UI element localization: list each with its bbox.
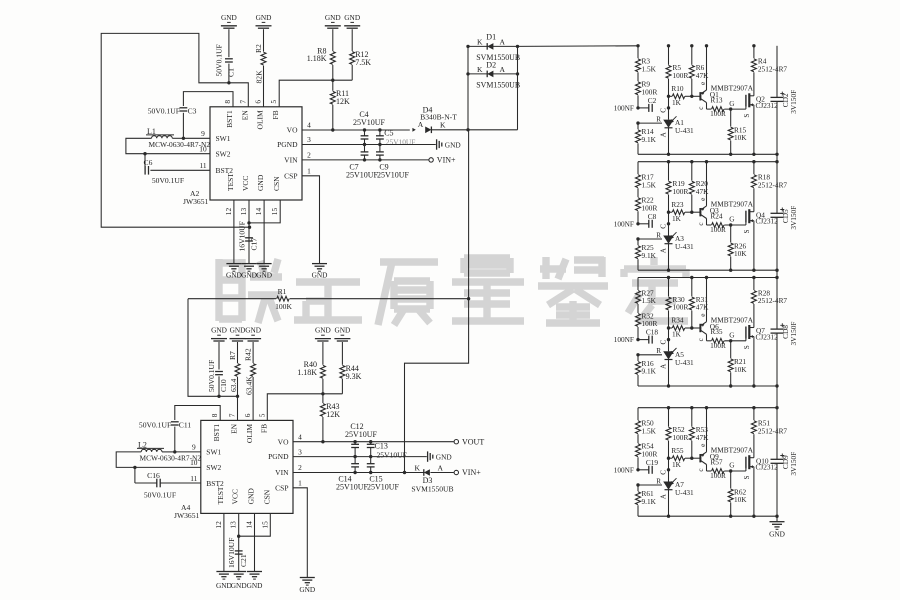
svg-text:c: c (697, 338, 705, 341)
svg-text:K: K (477, 65, 483, 74)
svg-text:1.5K: 1.5K (642, 426, 657, 435)
svg-text:G: G (729, 462, 734, 470)
svg-text:C1: C1 (227, 68, 236, 77)
svg-text:100NF: 100NF (614, 219, 634, 228)
svg-text:25V10UF: 25V10UF (336, 482, 369, 491)
ground PGND A2 (436, 139, 438, 149)
capacitor C19 (636, 468, 639, 471)
resistor R52 (668, 408, 670, 427)
resistor R25 (637, 239, 639, 245)
junction C11-SW1 (173, 450, 176, 453)
svg-text:e: e (699, 444, 707, 447)
wire PGND A4 (293, 456, 427, 458)
junction CSN-VCC A4 (237, 535, 240, 538)
svg-text:25V10UF: 25V10UF (346, 170, 379, 179)
svg-text:R13: R13 (710, 95, 723, 104)
wire top rail cell3 (638, 277, 777, 279)
terminal VIN+ A2 (429, 158, 433, 162)
svg-text:R24: R24 (710, 211, 723, 220)
terminal VOUT (454, 440, 458, 444)
resistor R30 (668, 278, 670, 297)
wire D2 branch (468, 73, 518, 75)
svg-text:GND: GND (221, 13, 237, 22)
capacitor C13 (369, 440, 372, 443)
resistor R21 (729, 339, 732, 342)
svg-text:11: 11 (190, 474, 197, 483)
wire FB A2 (279, 80, 352, 107)
wire TEST A4 (223, 513, 225, 571)
resistor R4 (753, 46, 755, 59)
svg-text:D2: D2 (486, 60, 496, 69)
resistor R24 (707, 224, 712, 226)
wire top feed (468, 45, 638, 48)
svg-text:1K: 1K (672, 330, 682, 339)
watermark (219, 257, 688, 325)
capacitor C3 (183, 92, 233, 107)
svg-text:C18: C18 (646, 328, 659, 337)
ground GND pin A2 (257, 263, 272, 265)
resistor R23 (667, 211, 670, 214)
svg-text:CJ2312: CJ2312 (756, 101, 779, 110)
svg-text:GND: GND (247, 581, 263, 590)
svg-text:e: e (699, 82, 707, 85)
svg-text:c: c (697, 106, 705, 109)
wire VO A2 (302, 129, 410, 131)
junction FB-R11 (331, 79, 334, 82)
svg-text:SW1: SW1 (216, 134, 231, 143)
svg-text:50V0.1UF: 50V0.1UF (215, 44, 224, 76)
shunt regulator A1 U-431 (668, 96, 670, 119)
svg-text:R10: R10 (671, 84, 684, 93)
svg-text:R42: R42 (243, 348, 252, 361)
svg-text:2512-4R7: 2512-4R7 (758, 426, 788, 435)
capacitor C12 (353, 440, 356, 443)
wire cathode rail D1-D2 (467, 46, 469, 129)
svg-text:9: 9 (192, 443, 196, 452)
resistor R51 (753, 408, 755, 421)
wire cell link 1-2 (776, 154, 778, 161)
wire source cell4 (753, 467, 755, 517)
svg-text:100R: 100R (710, 471, 726, 480)
svg-text:VCC: VCC (241, 176, 250, 191)
svg-text:50V0.1UF: 50V0.1UF (152, 176, 184, 185)
svg-text:JW3651: JW3651 (183, 197, 209, 206)
svg-text:TEST: TEST (216, 486, 225, 504)
svg-text:1.5K: 1.5K (642, 65, 657, 74)
wire top rail cell1 (667, 44, 670, 47)
svg-text:A: A (659, 493, 667, 499)
svg-text:S: S (743, 345, 751, 349)
svg-text:R55: R55 (671, 446, 684, 455)
svg-text:VIN+: VIN+ (437, 156, 456, 165)
resistor R22 (636, 198, 641, 211)
svg-text:15: 15 (270, 208, 279, 216)
svg-text:SVM1550UB: SVM1550UB (476, 81, 520, 90)
resistor R32 (636, 314, 641, 327)
capacitor CD2 (776, 46, 778, 98)
svg-text:7: 7 (238, 100, 247, 104)
svg-text:9: 9 (201, 129, 205, 138)
wire EN loop A2 (101, 33, 249, 227)
wire FB A4 (267, 394, 342, 421)
svg-text:R23: R23 (671, 200, 684, 209)
resistor R1 (188, 298, 276, 300)
resistor R15 (729, 107, 732, 110)
svg-text:S: S (743, 230, 751, 234)
transistor Q6 MMBT2907A (699, 324, 701, 332)
wire TEST A2 (233, 200, 235, 263)
wire source cell2 (753, 221, 755, 271)
wire source cell1 (753, 105, 755, 155)
svg-text:C: C (659, 339, 667, 344)
wire D4 output (432, 129, 518, 131)
junction R43-VO (321, 440, 324, 443)
svg-text:50V0.1UF: 50V0.1UF (144, 490, 176, 499)
resistor R53 (691, 408, 693, 427)
svg-text:GND: GND (216, 581, 232, 590)
resistor R31 (691, 278, 693, 297)
shunt regulator A3 U-431 (668, 212, 670, 235)
svg-text:G: G (729, 216, 734, 224)
resistor R26 (729, 223, 732, 226)
resistor R16 (637, 355, 639, 361)
svg-text:2512-4R7: 2512-4R7 (758, 65, 788, 74)
svg-text:1K: 1K (672, 460, 682, 469)
svg-text:GND: GND (245, 326, 261, 335)
svg-text:1.18K: 1.18K (307, 54, 327, 63)
resistor R11 (332, 80, 334, 91)
svg-text:100R: 100R (673, 187, 689, 196)
svg-text:12K: 12K (326, 410, 340, 419)
junction CSN-VCC (247, 221, 250, 224)
svg-text:9.1K: 9.1K (642, 251, 657, 260)
svg-text:9.1K: 9.1K (642, 497, 657, 506)
svg-text:PGND: PGND (268, 452, 289, 461)
wire VO A4 (293, 441, 454, 443)
resistor R27 (637, 278, 639, 291)
svg-text:G: G (729, 332, 734, 340)
wire ref A3 (636, 237, 639, 240)
capacitor C10 (218, 342, 220, 370)
wire top rail cell2 (638, 161, 777, 163)
svg-text:4: 4 (298, 432, 302, 441)
svg-text:D1: D1 (486, 33, 496, 42)
svg-text:CJ2312: CJ2312 (756, 217, 779, 226)
capacitor C9 (379, 145, 381, 152)
svg-text:SW2: SW2 (206, 463, 221, 472)
svg-text:S: S (743, 114, 751, 118)
svg-text:CSP: CSP (275, 483, 288, 492)
wire CSN A4 (239, 513, 271, 536)
svg-text:SW1: SW1 (206, 448, 221, 457)
resistor R3 (637, 46, 639, 59)
junction R11-VO (331, 128, 334, 131)
svg-text:50V0.1UF: 50V0.1UF (139, 420, 171, 429)
wire CSP A2 (302, 176, 320, 264)
svg-text:A: A (418, 120, 424, 129)
svg-text:e: e (699, 198, 707, 201)
svg-text:7: 7 (228, 413, 237, 417)
svg-text:12: 12 (224, 208, 233, 216)
svg-text:VO: VO (278, 437, 289, 446)
svg-text:100R: 100R (710, 109, 726, 118)
svg-text:FB: FB (259, 424, 268, 433)
svg-text:K: K (415, 464, 421, 473)
junction loop-VCC (248, 226, 251, 229)
capacitor C14 (354, 457, 356, 464)
svg-text:VO: VO (287, 126, 298, 135)
svg-text:C21: C21 (239, 554, 248, 567)
svg-text:JW3651: JW3651 (174, 511, 200, 520)
ground VCC A4 (231, 571, 246, 573)
resistor R14 (637, 123, 639, 129)
svg-text:C10: C10 (219, 379, 228, 392)
resistor R34 (667, 326, 670, 329)
svg-text:C: C (659, 470, 667, 475)
wire cell link 3-4 (776, 386, 778, 408)
wire GND pin A4 (254, 513, 256, 571)
svg-text:10K: 10K (734, 495, 747, 504)
svg-text:9.1K: 9.1K (642, 367, 657, 376)
svg-text:15: 15 (260, 521, 269, 529)
svg-text:1K: 1K (672, 98, 682, 107)
resistor R44 (341, 342, 343, 365)
resistor R9 (636, 82, 641, 95)
svg-text:GND: GND (344, 13, 360, 22)
svg-text:12: 12 (214, 521, 223, 529)
svg-text:OLIM: OLIM (256, 110, 265, 129)
svg-text:9.1K: 9.1K (642, 135, 657, 144)
svg-text:K: K (477, 38, 483, 47)
svg-text:VCC: VCC (231, 489, 240, 504)
svg-text:R: R (656, 231, 661, 239)
svg-text:PGND: PGND (277, 140, 298, 149)
svg-text:1: 1 (298, 479, 302, 488)
ground GND pin A4 (247, 571, 262, 573)
capacitor C6 (144, 154, 146, 171)
svg-text:A: A (659, 363, 667, 369)
svg-text:100R: 100R (673, 433, 689, 442)
svg-text:TEST: TEST (226, 173, 235, 191)
ground TEST A4 (216, 571, 231, 573)
svg-text:G: G (729, 100, 734, 108)
svg-text:FB: FB (271, 110, 280, 119)
svg-text:c: c (697, 222, 705, 225)
capacitor C11 (175, 406, 220, 421)
resistor R7 (237, 342, 239, 363)
svg-text:100R: 100R (710, 225, 726, 234)
svg-text:U-431: U-431 (675, 488, 694, 497)
svg-text:50V0.1UF: 50V0.1UF (207, 360, 216, 392)
svg-text:9.3K: 9.3K (346, 372, 362, 381)
wire VIN A2 (302, 159, 429, 161)
wire ref A1 (636, 121, 639, 124)
svg-text:3: 3 (307, 135, 311, 144)
svg-text:C: C (659, 108, 667, 113)
svg-text:MCW-0630-4R7-N2: MCW-0630-4R7-N2 (140, 453, 202, 462)
svg-text:16V10UF: 16V10UF (227, 538, 236, 568)
junction C1-EN (227, 81, 230, 84)
svg-text:12K: 12K (336, 97, 350, 106)
resistor R8 (332, 29, 334, 51)
svg-text:R: R (656, 115, 661, 123)
svg-text:B340B-N-T: B340B-N-T (420, 113, 457, 122)
svg-text:GND: GND (325, 13, 341, 22)
junction SW2-C6 (143, 152, 146, 155)
svg-text:VIN: VIN (275, 468, 289, 477)
svg-text:R2: R2 (254, 44, 263, 53)
svg-text:A: A (500, 65, 506, 74)
wire top rail cell4 (638, 407, 777, 409)
svg-text:3V150F: 3V150F (789, 90, 798, 114)
svg-text:R57: R57 (710, 457, 723, 466)
svg-text:C16: C16 (147, 471, 160, 480)
svg-text:47K: 47K (696, 433, 709, 442)
wire VCC A2 (248, 200, 250, 263)
svg-text:U-431: U-431 (675, 126, 694, 135)
capacitor C8 (636, 222, 639, 225)
resistor R13 (707, 108, 712, 110)
terminal VIN+ A4 (454, 470, 458, 474)
svg-text:3V150F: 3V150F (789, 322, 798, 346)
svg-text:C6: C6 (144, 158, 153, 167)
svg-text:25V10UF: 25V10UF (386, 138, 416, 147)
svg-text:5: 5 (257, 413, 266, 417)
svg-text:47K: 47K (696, 71, 709, 80)
svg-text:GND: GND (231, 581, 247, 590)
junction SW2-C16 (133, 466, 136, 469)
capacitor CD8 (776, 278, 778, 330)
svg-text:2: 2 (298, 463, 302, 472)
resistor R42 (252, 342, 254, 363)
svg-text:GND: GND (241, 271, 257, 280)
wire CSN A2 (249, 200, 280, 223)
svg-text:100K: 100K (275, 302, 292, 311)
ground CSP A2 (312, 263, 327, 265)
capacitor C4 (363, 128, 366, 131)
resistor R20 (691, 162, 693, 181)
transistor Q3 MMBT2907A (699, 208, 701, 216)
svg-text:25V10UF: 25V10UF (353, 118, 386, 127)
svg-text:GND: GND (769, 529, 785, 538)
svg-text:13: 13 (239, 208, 248, 216)
svg-text:4: 4 (307, 121, 311, 130)
ground VCC A2 (242, 263, 257, 265)
svg-text:100R: 100R (673, 303, 689, 312)
svg-text:82K: 82K (255, 70, 264, 84)
svg-text:C: C (659, 224, 667, 229)
svg-text:1: 1 (307, 167, 311, 176)
capacitor C2 (636, 106, 639, 109)
svg-text:6: 6 (254, 100, 263, 104)
shunt regulator A7 U-431 (668, 458, 670, 481)
svg-text:VOUT: VOUT (462, 437, 484, 446)
svg-text:GND: GND (256, 174, 265, 191)
svg-text:10K: 10K (734, 365, 747, 374)
svg-text:47K: 47K (696, 303, 709, 312)
svg-text:GND: GND (445, 140, 461, 149)
svg-text:A: A (438, 464, 444, 473)
svg-text:R34: R34 (671, 316, 684, 325)
svg-text:VIN+: VIN+ (462, 468, 481, 477)
resistor R50 (637, 408, 639, 421)
resistor R6 (691, 46, 693, 65)
transistor Q2 CJ2312 (745, 95, 747, 107)
ground PGND A4 (427, 451, 429, 461)
svg-text:100NF: 100NF (614, 335, 634, 344)
svg-text:BST1: BST1 (212, 424, 221, 442)
wire bottom rail cell1 (638, 153, 777, 155)
svg-text:CSP: CSP (284, 171, 297, 180)
resistor R40 (322, 342, 324, 365)
wire GND pin A2 (263, 200, 265, 263)
junction C10-EN (217, 395, 220, 398)
svg-text:C19: C19 (646, 458, 659, 467)
svg-text:7.5K: 7.5K (355, 58, 371, 67)
capacitor C16 (134, 467, 136, 483)
svg-text:U-431: U-431 (675, 358, 694, 367)
svg-text:R35: R35 (710, 327, 723, 336)
svg-text:SVM1550UB: SVM1550UB (476, 53, 520, 62)
capacitor C17 (245, 237, 253, 239)
node X rail (405, 130, 469, 473)
svg-text:c: c (697, 468, 705, 471)
transistor Q1 MMBT2907A (699, 92, 701, 100)
wire anode rail D1-D2 (517, 46, 519, 129)
resistor R18 (753, 162, 755, 175)
op-amp A4 (201, 420, 293, 513)
capacitor C15 (370, 457, 372, 464)
svg-text:U-431: U-431 (675, 242, 694, 251)
svg-text:2: 2 (307, 151, 311, 160)
resistor R17 (637, 162, 639, 175)
svg-text:GND: GND (299, 585, 315, 594)
svg-text:GND: GND (436, 452, 452, 461)
svg-text:25V10UF: 25V10UF (377, 451, 407, 460)
svg-text:K: K (440, 121, 446, 130)
svg-text:GND: GND (211, 326, 227, 335)
resistor R28 (753, 278, 755, 291)
capacitor C7 (364, 145, 366, 152)
svg-text:25V10UF: 25V10UF (367, 482, 400, 491)
resistor R62 (729, 469, 732, 472)
svg-text:16V10UF: 16V10UF (238, 221, 247, 251)
svg-text:A: A (500, 38, 506, 47)
svg-text:11: 11 (199, 161, 206, 170)
svg-text:C5: C5 (384, 129, 393, 138)
svg-text:3V150F: 3V150F (789, 452, 798, 476)
capacitor C5 (378, 128, 381, 131)
wire cell link 2-3 (776, 270, 778, 277)
svg-text:5: 5 (269, 100, 278, 104)
svg-text:C8: C8 (648, 212, 657, 221)
svg-text:R1: R1 (278, 287, 287, 296)
svg-text:CJ2312: CJ2312 (756, 333, 779, 342)
svg-text:GND: GND (256, 13, 272, 22)
resistor R61 (637, 485, 639, 491)
svg-text:GND: GND (247, 488, 256, 505)
svg-text:13: 13 (229, 521, 238, 529)
svg-text:R: R (656, 347, 661, 355)
resistor R35 (707, 340, 712, 342)
svg-text:1K: 1K (672, 214, 682, 223)
capacitor C21 (235, 550, 243, 552)
wire CSP A4 (293, 488, 307, 578)
wire ref A7 (636, 483, 639, 486)
svg-text:6: 6 (243, 413, 252, 417)
ground TEST A2 (226, 263, 241, 265)
svg-text:8: 8 (210, 413, 219, 417)
